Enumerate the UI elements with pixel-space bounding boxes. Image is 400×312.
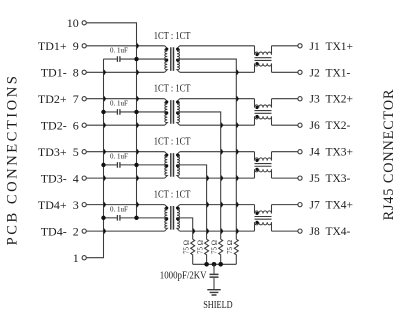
wire hop: T3 center-tap drop over wire y=204.6	[207, 202, 210, 207]
wire: TD4+ pin 3 to transformer T4 primary	[87, 204, 165, 206]
choke L4 polarity dots	[255, 212, 258, 215]
wire hop: pin-10 bus over horizontal wire y=45.8	[137, 43, 140, 48]
wire: T2 secondary bottom to choke L2	[180, 124, 255, 126]
terminal J7	[298, 203, 302, 207]
wire: TD2+ pin 7 to transformer T2 primary	[87, 98, 165, 100]
svg-text:75 Ω: 75 Ω	[196, 240, 204, 254]
svg-text:75 Ω: 75 Ω	[182, 240, 190, 254]
wire: T4 secondary top to choke L4	[180, 204, 255, 206]
wire hop: T1 center-tap drop over wire y=178.1	[236, 175, 239, 180]
junction: rail to resistor (T2)	[218, 262, 223, 267]
wire hop: T1 center-tap drop over wire y=204.6	[236, 202, 239, 207]
junction: rail to capacitor C5	[212, 262, 217, 267]
wire: T2 secondary top to choke L2	[180, 98, 255, 100]
wire: T1 secondary top to choke L1	[180, 45, 255, 47]
wire: choke to J8 terminal	[272, 230, 298, 232]
wire: choke to J1 terminal	[272, 45, 298, 47]
wire hop: T3 center-tap drop over wire y=178.1	[207, 175, 210, 180]
wire hop: T2 center-tap drop over wire y=231.1	[221, 228, 224, 233]
wire hop: pin-1 bus over horizontal wire y=204.6	[104, 202, 107, 207]
pin 10 terminal	[82, 21, 86, 25]
junction: pin-1 bus to cap C2	[101, 110, 105, 114]
terminal J3	[298, 97, 302, 101]
svg-text:J7 TX4+: J7 TX4+	[310, 200, 354, 212]
wire hop: T1 center-tap drop over wire y=151.7	[236, 149, 239, 154]
terminal J6	[298, 123, 302, 127]
wire: T3 primary center tap (cap C3 to winding)	[121, 164, 168, 166]
wire: T4 primary center tap (cap C4 to winding)	[121, 217, 168, 219]
transformer T4 polarity dots	[165, 206, 168, 209]
svg-text:0. 1uF: 0. 1uF	[110, 98, 128, 107]
terminal J4	[298, 150, 302, 154]
wire: TD1+ pin 9 to transformer T1 primary	[87, 45, 165, 47]
resistor 75 ohm (T3 termination)	[205, 239, 209, 264]
junction: pin-1 bus to cap C3	[101, 163, 105, 167]
transformer T4 primary winding (left)	[165, 205, 168, 232]
common-mode choke L4 bottom winding	[255, 222, 272, 231]
transformer T1 primary winding (left)	[165, 46, 168, 73]
pin 2 terminal (TD4-)	[82, 229, 86, 233]
wire hop: T3 center-tap drop over wire y=231.1	[207, 228, 210, 233]
junction: pin-10 bus to T2 primary center tap	[134, 110, 138, 114]
wire: T3 secondary bottom to choke L3	[180, 177, 255, 179]
wire hop: pin-1 bus over horizontal wire y=151.7	[104, 149, 107, 154]
svg-text:TD2- 6: TD2- 6	[41, 118, 79, 132]
junction: rail to resistor (T3)	[204, 262, 209, 267]
wire: T4 secondary bottom to choke L4	[180, 230, 255, 232]
svg-text:1CT : 1CT: 1CT : 1CT	[154, 189, 191, 201]
wire hop: T1 center-tap drop over wire y=98.7	[236, 96, 239, 101]
capacitor C2 0.1uF plates	[117, 109, 120, 115]
wire hop: pin-1 bus over horizontal wire y=125.2	[104, 123, 107, 128]
svg-text:10: 10	[67, 16, 79, 30]
svg-text:J2 TX1-: J2 TX1-	[310, 67, 351, 79]
choke L3 polarity dots	[255, 159, 258, 162]
transformer T2 primary winding (left)	[165, 99, 168, 126]
resistor 75 ohm (T2 termination)	[219, 239, 223, 264]
svg-text:J6 TX2-: J6 TX2-	[310, 120, 351, 132]
wire: choke to J3 terminal	[272, 98, 298, 100]
svg-text:SHIELD: SHIELD	[203, 300, 232, 311]
svg-text:1CT : 1CT: 1CT : 1CT	[154, 30, 191, 42]
wire: T3 secondary top to choke L3	[180, 151, 255, 153]
wire hop: T2 center-tap drop over wire y=204.6	[221, 202, 224, 207]
wire: TD2- pin 6 to transformer T2 primary	[87, 124, 165, 126]
wire: T1 secondary center tap drop to 75-ohm resistor	[177, 59, 236, 239]
pin 5 terminal (TD3+)	[82, 150, 86, 154]
wire: T2 secondary center tap drop to 75-ohm resistor	[177, 112, 221, 239]
svg-text:RJ45 CONNECTOR: RJ45 CONNECTOR	[381, 89, 397, 221]
wire: TD3+ pin 5 to transformer T3 primary	[87, 151, 165, 153]
wire hop: T1 center-tap drop over wire y=72.3	[236, 70, 239, 75]
wire: choke to J5 terminal	[272, 177, 298, 179]
wire: T2 primary center tap (cap C2 to winding)	[121, 111, 168, 113]
junction: pin-10 bus to T4 primary center tap	[134, 216, 138, 220]
capacitor C3 0.1uF plates	[117, 162, 120, 168]
transformer T2 core	[171, 100, 173, 124]
transformer T3 secondary winding (right)	[177, 152, 180, 178]
wire: 0.1uF cap C4 left lead to pin-1 bus	[104, 217, 117, 219]
pin 1 terminal	[82, 256, 86, 260]
common-mode choke L4 top winding	[255, 205, 272, 214]
common-mode choke L3 top winding	[255, 152, 272, 161]
transformer T4 secondary winding (right)	[177, 205, 180, 232]
svg-text:TD4+ 3: TD4+ 3	[38, 198, 79, 212]
wire hop: pin-10 bus over horizontal wire y=72.3	[137, 70, 140, 75]
terminal J2	[298, 70, 302, 74]
transformer T1 secondary winding (right)	[177, 46, 180, 73]
svg-text:1CT : 1CT: 1CT : 1CT	[154, 83, 191, 95]
transformer T3 polarity dots	[165, 154, 168, 157]
transformer T2 secondary winding (right)	[177, 99, 180, 126]
wire hop: T2 center-tap drop over wire y=151.7	[221, 149, 224, 154]
terminal J5	[298, 176, 302, 180]
wire: choke to J4 terminal	[272, 151, 298, 153]
svg-text:J5 TX3-: J5 TX3-	[310, 173, 351, 185]
common-mode choke L2 core	[255, 111, 272, 114]
common-mode choke L2 bottom winding	[255, 116, 272, 125]
wire: T1 secondary bottom to choke L1	[180, 71, 255, 73]
transformer T4 core	[171, 206, 173, 230]
common-mode choke L4 core	[255, 217, 272, 220]
junction: pin-10 bus to T1 primary center tap	[134, 57, 138, 61]
capacitor C4 0.1uF plates	[117, 215, 120, 221]
wire: choke to J2 terminal	[272, 71, 298, 73]
wire hop: pin-1 bus over horizontal wire y=98.7	[104, 96, 107, 101]
wire hop: T4 center-tap drop over wire y=231.1	[193, 228, 196, 233]
wire: choke to J7 terminal	[272, 204, 298, 206]
wire: choke to J6 terminal	[272, 124, 298, 126]
pin 4 terminal (TD3-)	[82, 176, 86, 180]
common-mode choke L3 bottom winding	[255, 169, 272, 178]
capacitor C1 0.1uF plates	[117, 56, 120, 62]
svg-text:J8 TX4-: J8 TX4-	[310, 226, 351, 238]
common-mode choke L1 bottom winding	[255, 63, 272, 72]
svg-text:TD3- 4: TD3- 4	[41, 171, 79, 185]
ground symbol (shield earth)	[207, 290, 220, 295]
wire: termination common rail	[193, 263, 237, 265]
resistor 75 ohm (T1 termination)	[234, 239, 238, 264]
wire: T1 primary center tap (cap C1 to winding)	[121, 58, 168, 60]
wire: pin 1 to cap bus (vertical bus x=103.5)	[87, 59, 104, 258]
svg-text:PCB CONNECTIONS: PCB CONNECTIONS	[5, 74, 21, 246]
pin 3 terminal (TD4+)	[82, 203, 86, 207]
transformer T1 polarity dots	[165, 48, 168, 51]
transformer T1 core	[171, 47, 173, 71]
wire hop: pin-1 bus over horizontal wire y=231.1	[104, 228, 107, 233]
transformer T3 primary winding (left)	[165, 152, 168, 178]
wire: T3 secondary center tap drop to 75-ohm resistor	[177, 165, 207, 239]
wire hop: pin-10 bus over horizontal wire y=125.2	[137, 123, 140, 128]
svg-text:TD1- 8: TD1- 8	[41, 66, 79, 80]
svg-text:0. 1uF: 0. 1uF	[110, 151, 128, 160]
svg-text:J1 TX1+: J1 TX1+	[310, 41, 354, 53]
capacitor C5 1000pF/2KV	[213, 264, 215, 273]
common-mode choke L2 top winding	[255, 99, 272, 108]
wire hop: pin-10 bus over horizontal wire y=178.1	[137, 175, 140, 180]
choke L1 polarity dots	[255, 53, 258, 56]
wire hop: T1 center-tap drop over wire y=125.2	[236, 123, 239, 128]
svg-text:J3 TX2+: J3 TX2+	[310, 94, 354, 106]
wire: TD3- pin 4 to transformer T3 primary	[87, 177, 165, 179]
common-mode choke L3 core	[255, 164, 272, 167]
wire: TD1- pin 8 to transformer T1 primary	[87, 71, 165, 73]
svg-text:0. 1uF: 0. 1uF	[110, 204, 128, 213]
terminal J8	[298, 229, 302, 233]
svg-text:TD1+ 9: TD1+ 9	[38, 39, 79, 53]
svg-text:J4 TX3+: J4 TX3+	[310, 147, 354, 159]
transformer T2 polarity dots	[165, 101, 168, 104]
wire hop: T2 center-tap drop over wire y=125.2	[221, 123, 224, 128]
choke L2 polarity dots	[255, 106, 258, 109]
wire: 0.1uF cap C3 left lead to pin-1 bus	[104, 164, 117, 166]
pin 6 terminal (TD2-)	[82, 123, 86, 127]
pin 9 terminal (TD1+)	[82, 44, 86, 48]
wire hop: pin-1 bus over horizontal wire y=178.1	[104, 175, 107, 180]
common-mode choke L1 top winding	[255, 46, 272, 55]
wire hop: pin-10 bus over horizontal wire y=98.7	[137, 96, 140, 101]
wire: pin 10 to CT bus (vertical bus x=136.5)	[87, 23, 137, 218]
svg-text:TD2+ 7: TD2+ 7	[38, 92, 79, 106]
junction: pin-10 bus to T3 primary center tap	[134, 163, 138, 167]
wire: 0.1uF cap C2 left lead to pin-1 bus	[104, 111, 117, 113]
svg-text:0. 1uF: 0. 1uF	[110, 45, 128, 54]
svg-text:1CT : 1CT: 1CT : 1CT	[154, 136, 191, 148]
svg-text:TD3+ 5: TD3+ 5	[38, 145, 79, 159]
svg-text:75 Ω: 75 Ω	[210, 240, 218, 254]
svg-text:75 Ω: 75 Ω	[226, 240, 234, 254]
svg-text:1: 1	[73, 251, 79, 265]
wire hop: pin-1 bus over horizontal wire y=72.3	[104, 70, 107, 75]
transformer T3 core	[171, 153, 173, 177]
resistor 75 ohm (T4 termination)	[191, 239, 195, 264]
wire hop: pin-10 bus over horizontal wire y=151.7	[137, 149, 140, 154]
svg-text:1000pF/2KV: 1000pF/2KV	[160, 270, 207, 282]
pin 7 terminal (TD2+)	[82, 97, 86, 101]
wire hop: pin-10 bus over horizontal wire y=204.6	[137, 202, 140, 207]
wire: 0.1uF cap C1 left lead to pin-1 bus	[104, 58, 117, 60]
terminal J1	[298, 44, 302, 48]
wire: TD4- pin 2 to transformer T4 primary	[87, 230, 165, 232]
common-mode choke L1 core	[255, 58, 272, 61]
junction: pin-1 bus to cap C4	[101, 216, 105, 220]
pin 8 terminal (TD1-)	[82, 70, 86, 74]
wire hop: T1 center-tap drop over wire y=231.1	[236, 228, 239, 233]
wire hop: T2 center-tap drop over wire y=178.1	[221, 175, 224, 180]
wire: T4 secondary center tap drop to 75-ohm resistor	[177, 218, 193, 239]
svg-text:TD4- 2: TD4- 2	[41, 224, 79, 238]
